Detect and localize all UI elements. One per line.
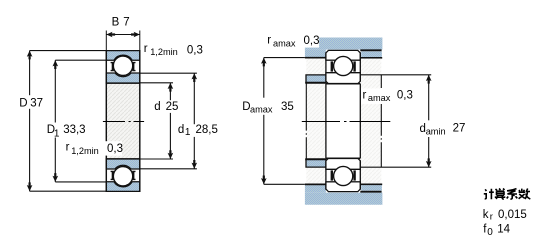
bore line top xyxy=(106,82,141,84)
svg-text:14: 14 xyxy=(497,223,510,235)
abutment boundary line left xyxy=(305,83,307,159)
svg-text:33,3: 33,3 xyxy=(63,124,85,136)
dimension B line xyxy=(106,34,140,36)
svg-text:D: D xyxy=(19,98,27,110)
da extension line top xyxy=(360,74,431,76)
svg-text:r: r xyxy=(66,142,70,154)
housing slab left step xyxy=(305,50,326,57)
dimension D: bottom extension xyxy=(30,190,107,192)
inner ring top xyxy=(106,73,140,83)
svg-text:0,3: 0,3 xyxy=(304,35,320,47)
glyph xi xyxy=(507,189,518,199)
svg-text:1,2min: 1,2min xyxy=(150,47,178,57)
dimension D: top extension xyxy=(30,50,107,52)
right bearing bottom mid white xyxy=(327,170,360,181)
Damax leader top xyxy=(264,57,305,59)
ball bottom right drawing xyxy=(334,166,353,185)
right bearing outer-ring line bottom xyxy=(326,181,360,183)
bearing middle hatched body xyxy=(106,83,140,159)
dimension D vertical line xyxy=(29,51,31,96)
dimension d1: top extension xyxy=(140,72,197,74)
right bearing outer-ring line top xyxy=(326,59,360,61)
glyph shu xyxy=(519,189,531,200)
svg-text:25: 25 xyxy=(166,101,179,113)
svg-text:r: r xyxy=(267,35,271,47)
ball top right drawing xyxy=(334,56,353,75)
svg-text:28,5: 28,5 xyxy=(196,124,218,136)
groove shoulder bar top-right xyxy=(132,62,135,71)
bore line bottom xyxy=(106,158,141,160)
abutment boundary line right xyxy=(380,75,382,167)
housing slab left step bottom line xyxy=(305,57,326,59)
svg-text:0: 0 xyxy=(487,227,493,238)
shaft band top line right xyxy=(360,183,382,185)
svg-text:amin: amin xyxy=(426,127,446,137)
dimension B: extension lines xyxy=(105,31,107,51)
shaft shoulder strip bottom-left xyxy=(306,159,326,167)
shaft band right of bearing xyxy=(361,185,382,191)
dimension D1: top extension xyxy=(55,59,106,61)
groove bars right drawing bottom xyxy=(331,170,333,180)
svg-text:0,3: 0,3 xyxy=(397,89,413,101)
svg-text:d: d xyxy=(178,124,184,136)
right bearing inner-ring line top xyxy=(326,72,360,74)
dimension Damax vertical xyxy=(263,58,265,98)
svg-text:1,2min: 1,2min xyxy=(71,146,99,156)
bore line extension left bottom xyxy=(305,158,326,160)
label ramax 0,3 middle-right xyxy=(361,89,391,105)
bearing bottom line extension right xyxy=(360,191,381,193)
dimension d1: bottom extension xyxy=(140,168,197,170)
right bearing top mid white xyxy=(327,61,360,72)
da extension line bottom xyxy=(360,166,431,168)
outer ring bottom xyxy=(106,182,140,192)
shaft slab left step top line xyxy=(305,183,326,185)
groove shoulder bar top-left xyxy=(111,62,114,71)
svg-text:1: 1 xyxy=(185,127,191,138)
abutment hatch band right xyxy=(360,59,381,184)
right bearing bottom inner ring part xyxy=(326,158,360,169)
housing shoulder bottom line right xyxy=(360,57,382,59)
centerline left drawing xyxy=(103,121,144,123)
bearing left edge xyxy=(105,50,107,192)
svg-text:0,3: 0,3 xyxy=(107,143,123,155)
dimension D1 vertical line xyxy=(54,60,56,122)
dimension d vertical line xyxy=(169,83,171,100)
svg-text:amax: amax xyxy=(273,38,296,48)
svg-text:d: d xyxy=(154,101,160,113)
housing shoulder band right of bearing xyxy=(361,51,382,57)
svg-text:B: B xyxy=(112,17,120,29)
right bearing inner-ring line bottom xyxy=(326,168,360,170)
groove shoulder bar bottom-left xyxy=(111,171,114,180)
svg-text:37: 37 xyxy=(30,98,43,110)
bore line extension left xyxy=(305,82,326,84)
abutment hatch band left xyxy=(306,59,326,184)
svg-text:r: r xyxy=(490,211,493,222)
right bearing bottom section body xyxy=(326,182,360,192)
dimension d1 vertical line xyxy=(193,73,195,124)
right bearing edges bottom xyxy=(325,160,327,189)
shaft shoulder strip top-left outline xyxy=(306,75,326,83)
svg-text:0,015: 0,015 xyxy=(498,209,527,221)
glyph ji (calculate) xyxy=(484,189,494,199)
centerline right drawing xyxy=(302,121,391,123)
right bearing top inner ring part xyxy=(326,73,360,84)
right bearing top section body xyxy=(326,50,360,60)
bearing top line extension right xyxy=(360,49,381,51)
Damax leader bottom xyxy=(264,183,305,185)
chinese title: calculation factors (drawn strokes) xyxy=(484,189,531,200)
svg-text:r: r xyxy=(144,43,148,55)
svg-text:r: r xyxy=(363,89,367,101)
dimension d: bottom extension xyxy=(140,158,173,160)
shaft shoulder strip top-left xyxy=(306,75,326,83)
svg-text:35: 35 xyxy=(281,101,294,113)
inner ring bottom xyxy=(106,159,140,169)
dimension D1: bottom extension xyxy=(55,181,106,183)
ball top xyxy=(113,56,132,75)
svg-text:0,3: 0,3 xyxy=(187,44,203,56)
svg-text:amax: amax xyxy=(250,105,273,115)
svg-text:amax: amax xyxy=(368,93,391,103)
groove bars right drawing top xyxy=(331,61,333,71)
bore line right bearing top xyxy=(326,83,360,85)
right bearing edges top xyxy=(325,52,327,81)
dimension d: top extension xyxy=(140,82,173,84)
svg-text:7: 7 xyxy=(123,17,129,29)
label d 25 xyxy=(164,101,179,112)
svg-text:k: k xyxy=(483,209,489,221)
svg-text:1: 1 xyxy=(54,128,60,139)
shaft slab left step xyxy=(305,185,326,192)
ball bottom xyxy=(113,167,132,186)
shaft slab bottom xyxy=(305,193,383,205)
svg-text:27: 27 xyxy=(453,123,466,135)
outer ring top xyxy=(106,51,140,61)
dimension damin vertical xyxy=(428,75,430,121)
groove shoulder bar bottom-right xyxy=(132,171,135,180)
bore line right bearing bottom xyxy=(326,157,360,159)
glyph suan xyxy=(495,189,506,200)
bearing right edge xyxy=(139,50,141,192)
shaft shoulder strip bottom-left outline xyxy=(306,159,326,167)
housing slab top xyxy=(305,38,383,50)
